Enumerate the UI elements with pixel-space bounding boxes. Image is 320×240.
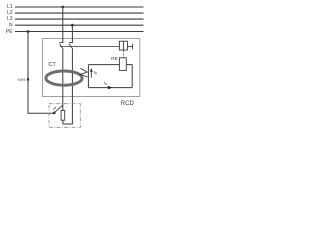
bus line L1	[15, 6, 144, 8]
RCD enclosure box	[43, 39, 140, 97]
secondary loop top wire	[88, 64, 119, 66]
contact blade N	[69, 44, 73, 50]
trip mechanism tail	[127, 46, 132, 48]
wire L1 lower run	[62, 49, 64, 110]
bus line L2	[15, 12, 144, 14]
arrow Iw right on bottom wire	[108, 86, 113, 90]
resistor bottom stub	[62, 120, 64, 124]
secondary loop right wire	[131, 65, 133, 88]
secondary winding leads	[80, 68, 87, 77]
bus line PE	[15, 31, 144, 33]
svg-text:IΔ (IΔn): IΔ (IΔn)	[18, 77, 26, 81]
node on PE	[27, 30, 30, 33]
secondary loop bottom wire	[88, 87, 132, 89]
wire PE down	[27, 32, 29, 114]
secondary loop left wire	[87, 65, 89, 88]
relay RE	[119, 58, 126, 71]
bus line N	[15, 24, 144, 26]
node on N	[71, 24, 74, 27]
wire PE bottom run right	[28, 112, 54, 114]
wire L1 down to contact	[62, 7, 64, 43]
svg-text:RCD: RCD	[121, 101, 135, 107]
wire N lower run	[71, 49, 73, 124]
contact seat tick L	[59, 42, 63, 44]
test resistor	[61, 111, 65, 121]
svg-text:PE: PE	[6, 29, 13, 35]
arrow Idelta on PE wire	[27, 76, 30, 80]
svg-text:L3: L3	[7, 16, 13, 22]
secondary loop wire relay to corner	[126, 64, 132, 66]
dashed link to relay	[122, 51, 124, 58]
junction dot test	[53, 112, 56, 115]
CT toroid	[46, 71, 82, 85]
arrow Iw up	[90, 71, 92, 77]
contact seat tick N	[69, 42, 73, 44]
node on L1	[61, 6, 64, 9]
test button tick	[53, 107, 56, 109]
svg-text:N: N	[9, 23, 13, 29]
test circuit dash-dot box	[49, 104, 80, 128]
trip mechanism end tick	[132, 44, 134, 49]
trip linkage wire	[60, 46, 119, 48]
contact blade L	[60, 44, 64, 50]
bus line L3	[15, 18, 144, 20]
wire N down to contact	[71, 25, 73, 42]
trip mechanism center bar	[122, 41, 124, 50]
svg-text:RE: RE	[111, 56, 118, 62]
trip mechanism square	[119, 41, 127, 50]
svg-text:L1: L1	[7, 4, 13, 10]
wire N bottom corner to resistor	[63, 123, 73, 125]
svg-text:CT: CT	[48, 62, 56, 68]
test button blade	[54, 105, 62, 113]
